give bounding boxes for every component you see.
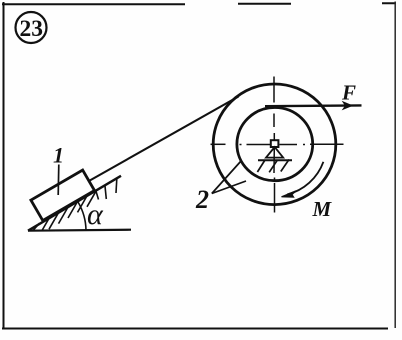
incline hatching — [33, 179, 117, 231]
svg-text:M: M — [312, 197, 333, 221]
pulley outer circle — [213, 84, 336, 205]
vertical centerline — [273, 77, 276, 213]
moment M arrowhead — [282, 191, 297, 197]
frame top border — [2, 2, 396, 5]
rope from block to pulley — [88, 97, 239, 182]
frame left border — [3, 2, 5, 329]
frame bottom border — [2, 328, 388, 330]
incline ground line — [28, 230, 131, 231]
svg-text:1: 1 — [53, 143, 64, 168]
problem number circle 23 — [16, 12, 47, 43]
svg-text:F: F — [341, 81, 356, 105]
block 1 on incline — [31, 170, 95, 220]
incline surface line — [28, 176, 121, 231]
moment M arc — [287, 162, 323, 195]
label 2 leader to inner circle — [212, 161, 241, 194]
label 1 leader line — [57, 165, 60, 196]
svg-text:23: 23 — [20, 16, 44, 42]
frame right border — [394, 2, 396, 329]
svg-text:α: α — [87, 198, 104, 231]
pin support ground line — [258, 159, 292, 161]
pulley inner circle — [237, 108, 313, 181]
angle alpha arc — [78, 202, 86, 230]
force F rope line — [265, 104, 362, 107]
horizontal centerline — [211, 143, 344, 145]
force F arrowhead — [343, 102, 352, 109]
label 2 leader to outer circle — [212, 181, 246, 194]
svg-text:2: 2 — [195, 185, 209, 214]
pin support hatching — [257, 160, 289, 173]
pin support triangle — [266, 147, 283, 158]
pin support square — [271, 140, 279, 147]
